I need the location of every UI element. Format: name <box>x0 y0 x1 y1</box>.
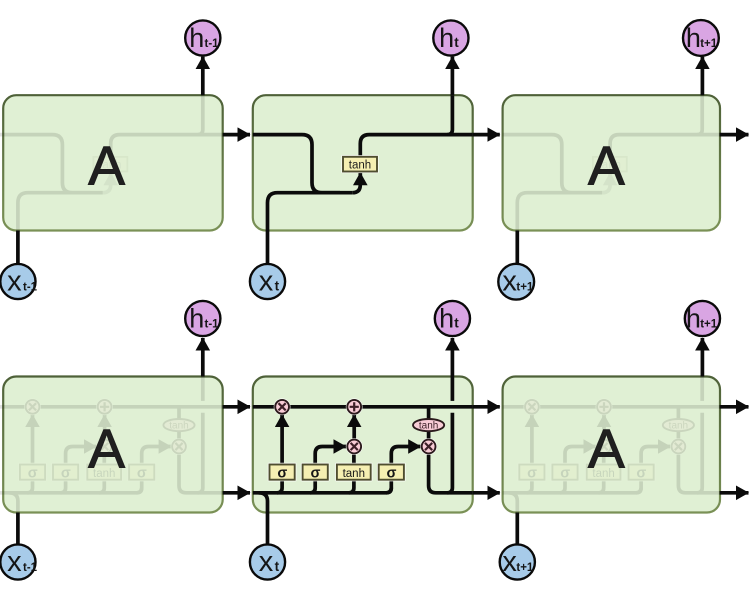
svg-text:t: t <box>275 559 280 574</box>
svg-text:t-1: t-1 <box>23 281 38 293</box>
svg-text:t: t <box>275 278 280 293</box>
svg-text:x: x <box>259 546 274 578</box>
svg-text:h: h <box>686 23 701 53</box>
svg-text:h: h <box>686 303 701 333</box>
svg-text:A: A <box>88 135 125 197</box>
svg-text:t-1: t-1 <box>23 562 38 574</box>
svg-text:t+1: t+1 <box>700 318 718 330</box>
svg-text:x: x <box>502 546 517 578</box>
svg-text:t-1: t-1 <box>205 318 220 330</box>
svg-text:x: x <box>7 265 22 297</box>
svg-text:t+1: t+1 <box>700 38 718 50</box>
svg-text:t: t <box>454 35 459 50</box>
svg-text:h: h <box>189 303 204 333</box>
svg-text:A: A <box>588 417 625 479</box>
svg-text:h: h <box>439 303 454 333</box>
svg-text:A: A <box>88 417 125 479</box>
svg-text:h: h <box>189 23 204 53</box>
svg-text:x: x <box>7 546 22 578</box>
svg-text:t+1: t+1 <box>516 562 534 574</box>
svg-text:x: x <box>502 265 517 297</box>
svg-text:t: t <box>454 315 459 330</box>
svg-text:x: x <box>259 265 274 297</box>
svg-text:t+1: t+1 <box>516 281 534 293</box>
svg-text:h: h <box>439 23 454 53</box>
svg-text:t-1: t-1 <box>205 38 220 50</box>
svg-text:A: A <box>588 135 625 197</box>
